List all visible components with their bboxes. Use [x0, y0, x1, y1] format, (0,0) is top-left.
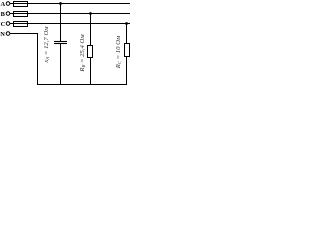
svg-text:B: B [1, 11, 6, 18]
svg-text:A: A [1, 1, 6, 8]
svg-text:C: C [1, 21, 6, 28]
svg-text:N: N [0, 31, 5, 38]
